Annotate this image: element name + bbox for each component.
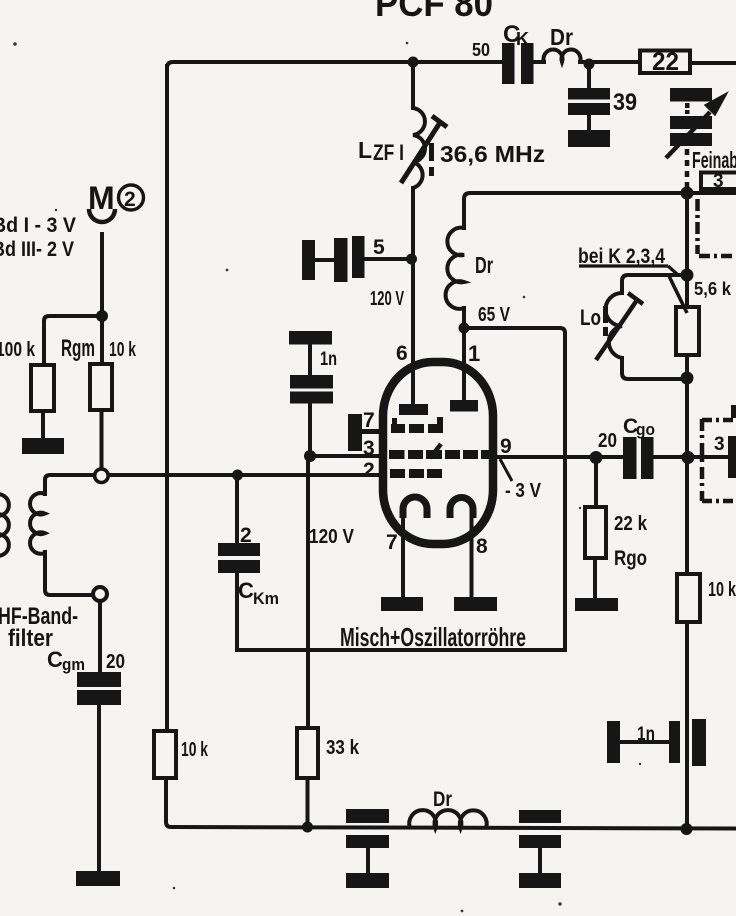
svg-text:PCF 80: PCF 80 <box>375 0 493 24</box>
svg-text:3: 3 <box>714 434 725 455</box>
svg-text:Bd I - 3 V: Bd I - 3 V <box>0 214 76 237</box>
svg-text:Dr: Dr <box>433 788 452 811</box>
svg-text:8: 8 <box>476 535 488 558</box>
svg-text:3: 3 <box>713 171 724 192</box>
svg-text:22 k: 22 k <box>614 513 648 535</box>
svg-text:go: go <box>636 420 655 439</box>
svg-text:10 k: 10 k <box>708 579 736 601</box>
svg-text:9: 9 <box>500 435 512 458</box>
svg-text:Rgm: Rgm <box>61 335 95 362</box>
svg-text:3: 3 <box>363 437 375 460</box>
svg-text:Bd III- 2 V: Bd III- 2 V <box>0 238 74 261</box>
svg-text:M: M <box>88 180 115 216</box>
svg-text:Misch+Oszillatorröhre: Misch+Oszillatorröhre <box>340 622 526 652</box>
svg-text:65 V: 65 V <box>478 304 511 326</box>
svg-text:Lo: Lo <box>580 305 601 330</box>
svg-text:- 3 V: - 3 V <box>505 480 542 502</box>
svg-text:K: K <box>516 29 529 49</box>
svg-text:20: 20 <box>106 651 125 673</box>
svg-text:1n: 1n <box>637 724 655 745</box>
svg-text:20: 20 <box>598 430 617 452</box>
svg-text:ZF I: ZF I <box>373 140 404 165</box>
svg-text:2: 2 <box>363 459 375 482</box>
svg-text:39: 39 <box>613 89 637 116</box>
svg-text:Feinab: Feinab <box>692 147 736 173</box>
svg-text:bei K 2,3,4: bei K 2,3,4 <box>578 245 665 268</box>
svg-text:7: 7 <box>386 531 398 554</box>
svg-text:33 k: 33 k <box>326 737 360 759</box>
svg-text:1n: 1n <box>320 349 337 370</box>
svg-text:1: 1 <box>468 341 480 366</box>
svg-text:10 k: 10 k <box>181 739 209 761</box>
svg-text:7: 7 <box>363 409 375 432</box>
svg-text:6: 6 <box>396 342 408 365</box>
svg-text:Dr: Dr <box>475 252 493 278</box>
svg-text:2: 2 <box>240 524 252 547</box>
svg-text:36,6 MHz: 36,6 MHz <box>440 141 545 167</box>
svg-text:50: 50 <box>472 40 490 60</box>
svg-text:5,6 k: 5,6 k <box>694 279 732 299</box>
svg-text:L: L <box>358 137 372 163</box>
svg-text:120 V: 120 V <box>370 288 404 310</box>
svg-text:22: 22 <box>652 48 679 76</box>
svg-text:100 k: 100 k <box>0 339 36 361</box>
svg-text:2: 2 <box>124 188 136 211</box>
svg-text:gm: gm <box>62 655 85 674</box>
svg-text:Dr: Dr <box>550 24 573 50</box>
svg-text:Rgo: Rgo <box>614 547 647 570</box>
svg-text:C: C <box>47 647 63 672</box>
svg-text:5: 5 <box>373 236 385 259</box>
svg-text:C: C <box>238 578 254 603</box>
svg-text:120 V: 120 V <box>309 526 355 548</box>
svg-text:Km: Km <box>253 589 279 608</box>
svg-text:10 k: 10 k <box>109 339 137 361</box>
